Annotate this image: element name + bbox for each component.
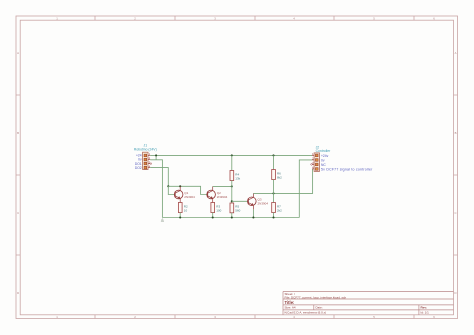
junction R6/R7 divider on signal [272, 192, 274, 194]
no-connect indicator J2 pin3 [311, 164, 313, 166]
svg-text:Rev:: Rev: [421, 306, 428, 310]
junction R5 to 0v rail [231, 216, 233, 218]
wire Q2 collector to R4/R5 node [213, 185, 232, 187]
svg-text:Date:: Date: [316, 306, 323, 310]
svg-text:2k2: 2k2 [277, 208, 282, 212]
wire R4 bottom through node to Q3 base node [231, 181, 233, 204]
svg-text:Size: A4: Size: A4 [285, 306, 296, 310]
J1 pin numbers [149, 152, 151, 168]
svg-text:+24v: +24v [321, 154, 329, 158]
J2 pin numbers [312, 152, 314, 170]
junction Q1 collector [179, 185, 181, 187]
junction Q3 base node [231, 200, 233, 202]
transistor Q2 [207, 186, 216, 202]
svg-text:13k: 13k [235, 176, 240, 180]
svg-text:C: C [454, 211, 456, 215]
wire Q3 collector signal to J2 [253, 169, 312, 194]
svg-text:KiCad E.D.A. eeschema (6.0.x): KiCad E.D.A. eeschema (6.0.x) [285, 311, 327, 315]
svg-text:DO2: DO2 [135, 166, 142, 170]
svg-text:Id: 1/1: Id: 1/1 [421, 311, 430, 315]
svg-text:NC: NC [321, 163, 326, 167]
svg-text:File: DCF77_current_loop_inter: File: DCF77_current_loop_interface.kicad… [285, 295, 347, 299]
wire node to Q1 collector and Q2 base [168, 186, 207, 194]
wire +24 top rail [150, 154, 312, 156]
junction R7 to 0v rail [272, 216, 274, 218]
junction R4 top on +24 rail [231, 154, 233, 156]
wire J2 pin2 0v to bottom rail [299, 160, 312, 218]
connector J2 [312, 153, 320, 172]
svg-text:Robotino (24V): Robotino (24V) [134, 148, 157, 152]
wire 0v from J1 pin2 to bottom rail [150, 160, 162, 218]
junction R6 top on +24 rail [272, 154, 274, 156]
svg-text:B: B [17, 131, 19, 135]
wire to Q1 base [168, 186, 175, 194]
svg-text:Title:: Title: [285, 300, 295, 305]
wire to Q3 base [232, 200, 249, 202]
transistor Q1 [174, 186, 183, 202]
svg-text:0v: 0v [321, 158, 325, 162]
junction R2 to 0v rail [179, 216, 181, 218]
connector J1 [143, 152, 151, 169]
junction on +24 rail [155, 154, 157, 156]
wire 0v bottom rail [162, 217, 299, 219]
svg-text:D: D [454, 291, 456, 295]
svg-text:2N3904: 2N3904 [258, 202, 269, 206]
wire DO2 from J1 pin4 [150, 168, 168, 187]
wire +24 rail down to R6 [273, 155, 275, 169]
wire Q3 emitter to 0v rail [252, 209, 254, 217]
wire from +24 rail down to 0v wire [155, 155, 157, 159]
svg-text:560: 560 [235, 209, 240, 213]
resistor R2 [178, 203, 182, 218]
svg-text:2N3904: 2N3904 [217, 195, 228, 199]
svg-text:5v DCF77 signal to controller: 5v DCF77 signal to controller [321, 167, 373, 171]
resistor R5 [230, 203, 234, 218]
svg-text:Controller: Controller [316, 149, 332, 153]
no-connect indicator J1 pin3 [150, 163, 152, 165]
svg-text:B: B [455, 131, 457, 135]
svg-text:D: D [17, 291, 19, 295]
resistor R6 [272, 170, 276, 180]
power flag at 0v rail [161, 219, 164, 222]
wire R6 bottom to R7 top [273, 180, 275, 203]
junction Q3 emitter to 0v rail [252, 216, 254, 218]
svg-text:A: A [455, 51, 457, 55]
svg-text:A: A [17, 51, 19, 55]
wire +24 rail down to R4 [231, 155, 233, 170]
resistor R7 [272, 203, 276, 218]
junction R4 bottom node [231, 185, 233, 187]
transistor Q3 [248, 193, 257, 209]
svg-text:100: 100 [216, 208, 221, 212]
svg-text:2N3904: 2N3904 [184, 195, 195, 199]
junction node DO2/Q1 base [167, 185, 169, 187]
svg-text:8k2: 8k2 [277, 175, 282, 179]
svg-text:10: 10 [184, 208, 188, 212]
resistor R4 [230, 171, 234, 181]
svg-text:C: C [17, 211, 19, 215]
resistor R3 [211, 203, 215, 218]
junction R3 to 0v rail [212, 216, 214, 218]
